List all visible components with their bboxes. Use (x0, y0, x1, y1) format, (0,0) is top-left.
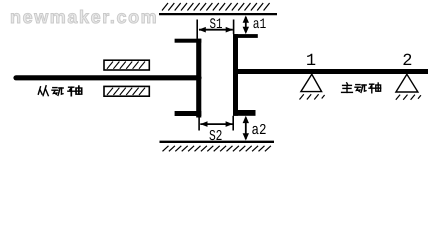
svg-text:newmaker.com: newmaker.com (10, 7, 158, 27)
svg-text:a1: a1 (253, 17, 266, 33)
svg-text:a2: a2 (252, 122, 267, 139)
svg-text:1: 1 (306, 52, 316, 71)
svg-text:S1: S1 (210, 17, 223, 33)
svg-text:S2: S2 (209, 128, 223, 145)
svg-text:2: 2 (402, 52, 412, 71)
